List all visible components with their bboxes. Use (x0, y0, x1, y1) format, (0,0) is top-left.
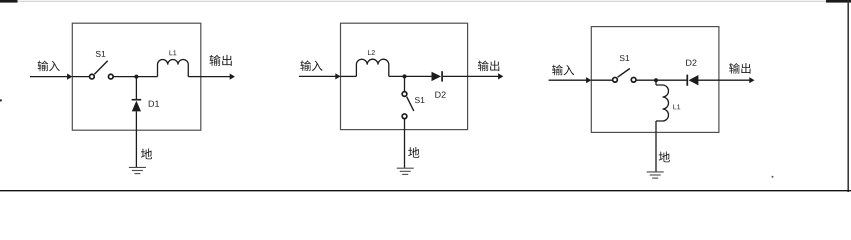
diode D2 circuit 2 (432, 72, 442, 81)
wire diode to ground 1 (135, 111, 137, 167)
label D1 (149, 101, 159, 107)
wire junction to diode D1 (135, 77, 137, 100)
wire inductor to diode 2 (389, 75, 432, 77)
wire junction to inductor 3 (655, 80, 657, 85)
enclosure box 1 (72, 23, 201, 130)
wire switch to ground 2 (404, 119, 406, 168)
enclosure box 2 (341, 23, 468, 129)
wire box edge to switch 1 (72, 76, 89, 78)
right border line (847, 0, 849, 192)
label L2 (368, 50, 375, 55)
inductor L2 (356, 59, 388, 76)
label 输出 (output) circuit 1 (210, 55, 232, 66)
switch S1 circuit 1 (90, 74, 95, 79)
label D2 circuit 3 (686, 60, 696, 66)
label S1 circuit 3 (620, 55, 630, 61)
arrowhead input 1 (67, 74, 72, 80)
node junction 1 (134, 75, 138, 79)
label S1 circuit 2 (415, 97, 425, 103)
enclosure box 3 (591, 27, 719, 133)
inductor L1 circuit 1 (158, 59, 189, 76)
node junction 2 (403, 74, 407, 78)
diode D2 circuit 3 (reversed) (686, 75, 688, 86)
speck (772, 176, 774, 178)
wire input 2 (299, 75, 340, 77)
arrowhead input 3 (586, 77, 591, 83)
ground symbol 1 (129, 167, 146, 173)
label 输出 (output) circuit 2 (478, 61, 499, 72)
top border line (0, 0, 851, 2)
label L1 circuit 1 (169, 50, 176, 55)
label 地 (ground) circuit 2 (408, 147, 419, 158)
wire switch to inductor 1 (114, 76, 158, 78)
ground symbol 2 (397, 168, 414, 174)
wire diode to box edge 2 (443, 75, 468, 77)
wire output 2 (468, 75, 503, 77)
wire output 1 (201, 76, 234, 78)
wire box edge to inductor 2 (341, 75, 357, 77)
wire input 1 (30, 76, 72, 78)
wire input 3 (549, 79, 591, 81)
wire junction to switch 2 (404, 76, 406, 91)
wire diode to box edge 3 (698, 79, 719, 81)
wire inductor to box edge 1 (188, 76, 201, 78)
arrowhead input 2 (335, 73, 340, 79)
wire switch to diode 3 (636, 79, 686, 81)
node junction 3 (654, 78, 658, 82)
label 输入 (input) circuit 1 (38, 61, 60, 72)
arrowhead output 1 (230, 74, 235, 80)
label D2 circuit 2 (435, 92, 445, 98)
label S1 circuit 1 (96, 51, 106, 57)
label 输入 (input) circuit 2 (300, 60, 322, 71)
switch S1 circuit 2 (vertical) (402, 92, 407, 97)
label 地 (ground) circuit 3 (659, 152, 670, 163)
label L1 circuit 3 (673, 104, 680, 109)
label 输出 (output) circuit 3 (729, 63, 750, 74)
label 地 (ground) circuit 1 (141, 149, 152, 160)
inductor L1 circuit 3 (vertical) (656, 85, 669, 121)
bottom border line (0, 190, 851, 192)
arrowhead output 3 (749, 77, 754, 83)
wire box edge to switch 3 (591, 79, 612, 81)
wire output 3 (719, 79, 754, 81)
wire inductor to ground 3 (655, 121, 657, 172)
ground symbol 3 (647, 172, 664, 178)
arrowhead output 2 (498, 73, 503, 79)
switch S1 circuit 3 (613, 77, 618, 82)
diode D1 (132, 99, 142, 101)
label 输入 (input) circuit 3 (552, 65, 574, 76)
